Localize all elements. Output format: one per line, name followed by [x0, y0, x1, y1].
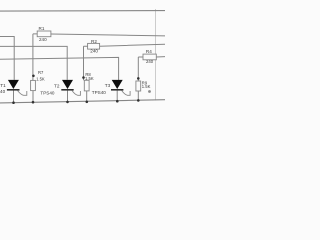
svg-text:1.5K: 1.5K	[85, 76, 94, 81]
svg-text:T3: T3	[105, 83, 111, 88]
node dot T1 cathode rail	[12, 101, 15, 104]
resistor R1 240	[33, 26, 165, 42]
thyristor T3 TPS40	[92, 80, 130, 101]
svg-text:TPS40: TPS40	[92, 90, 106, 95]
wire net A (left edge to T1 anode)	[0, 37, 14, 80]
wire R4 left lead down to R9	[137, 57, 139, 81]
resistor R8 1.5K	[84, 72, 94, 102]
node dot T3 cathode rail	[116, 100, 119, 103]
svg-text:R4: R4	[146, 49, 152, 54]
svg-text:T1: T1	[0, 83, 6, 88]
node dot R9 bottom rail	[137, 99, 140, 102]
node dot T2 cathode rail	[66, 101, 69, 104]
node dot R8 bottom rail	[86, 101, 89, 104]
node dot R7 top	[32, 75, 35, 78]
node dot R8 top	[82, 76, 85, 79]
resistor R4 240	[138, 49, 165, 64]
node dot R7 bottom rail	[32, 101, 35, 104]
svg-text:R7: R7	[38, 70, 44, 75]
svg-text:T2: T2	[54, 83, 60, 88]
wire R2 left lead down to R8	[83, 46, 85, 80]
svg-text:1.5K: 1.5K	[36, 77, 45, 82]
resistor R7 1.5K	[31, 70, 45, 103]
wire net B (left edge to T2 anode)	[0, 46, 67, 80]
svg-text:TPS40: TPS40	[0, 89, 6, 94]
wire net C (left edge to T3 anode)	[0, 57, 119, 80]
svg-text:240: 240	[90, 49, 98, 54]
resistor R9 1.5K	[136, 81, 151, 101]
svg-text:TPS40: TPS40	[40, 90, 54, 95]
node dot R9 top	[137, 77, 140, 80]
svg-text:R1: R1	[39, 26, 45, 31]
svg-text:R2: R2	[91, 39, 97, 44]
svg-text:1.5K: 1.5K	[142, 84, 151, 89]
bottom ground rail	[0, 100, 165, 103]
resistor R2 240	[84, 39, 166, 54]
thyristor T1 TPS40	[0, 80, 27, 103]
scan crease artifact	[155, 9, 157, 101]
wire R1 left lead down to R7	[32, 34, 34, 81]
top supply rail	[0, 10, 165, 13]
svg-text:240: 240	[39, 37, 47, 42]
scan speck	[148, 90, 151, 93]
thyristor T2 TPS40	[40, 80, 80, 102]
svg-text:240: 240	[146, 59, 154, 64]
